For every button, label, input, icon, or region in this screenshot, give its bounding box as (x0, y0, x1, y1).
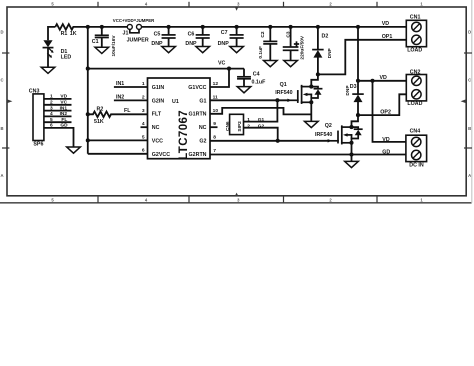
svg-text:G1: G1 (199, 98, 206, 104)
svg-text:C6: C6 (188, 32, 195, 38)
svg-text:C4: C4 (253, 71, 260, 77)
svg-text:FL: FL (61, 117, 67, 123)
svg-text:DNP: DNP (218, 41, 230, 47)
svg-text:C: C (468, 78, 471, 83)
svg-text:C3: C3 (285, 31, 291, 37)
svg-text:LTC7067: LTC7067 (178, 110, 190, 160)
svg-text:NC: NC (152, 125, 160, 131)
svg-text:Q1: Q1 (280, 82, 287, 88)
svg-text:G2: G2 (258, 123, 265, 129)
svg-text:1K: 1K (70, 31, 77, 37)
svg-text:G2IN: G2IN (152, 98, 165, 104)
svg-text:FL: FL (124, 108, 131, 114)
svg-text:C2: C2 (260, 31, 266, 37)
svg-text:SP6: SP6 (33, 141, 43, 147)
svg-text:0.1uF: 0.1uF (258, 46, 264, 59)
svg-text:DNP: DNP (327, 47, 333, 58)
svg-text:2: 2 (247, 123, 250, 129)
svg-text:JUMPER: JUMPER (127, 38, 149, 44)
svg-text:FLT: FLT (152, 112, 162, 118)
svg-text:LED: LED (61, 55, 72, 61)
svg-text:R2: R2 (97, 107, 104, 113)
svg-text:IN2: IN2 (116, 94, 124, 100)
svg-text:11: 11 (213, 94, 218, 100)
svg-text:G2: G2 (199, 139, 206, 145)
svg-text:VD: VD (382, 137, 390, 143)
svg-text:2: 2 (142, 94, 145, 100)
svg-text:6: 6 (50, 123, 53, 129)
svg-text:1: 1 (142, 81, 145, 87)
svg-text:B: B (0, 126, 3, 131)
svg-text:CN1: CN1 (410, 14, 421, 20)
svg-text:G1IN: G1IN (152, 85, 165, 91)
svg-text:LOAD: LOAD (407, 101, 422, 107)
svg-text:DNP: DNP (345, 85, 351, 96)
svg-text:G1: G1 (258, 117, 265, 123)
svg-text:VCC+VDD=JUMPER: VCC+VDD=JUMPER (113, 18, 155, 23)
svg-text:VC: VC (218, 61, 226, 67)
svg-text:0.1uF: 0.1uF (252, 79, 267, 85)
svg-text:OP2: OP2 (380, 109, 391, 115)
svg-text:220uF/50V: 220uF/50V (299, 35, 305, 60)
svg-text:G1RTN: G1RTN (189, 112, 207, 118)
svg-text:OP1: OP1 (382, 34, 393, 40)
svg-text:A: A (468, 173, 471, 178)
svg-text:IRF540: IRF540 (315, 132, 332, 138)
svg-text:IN1: IN1 (60, 105, 68, 111)
svg-text:51K: 51K (94, 119, 104, 125)
svg-text:8: 8 (213, 135, 216, 141)
svg-text:C5: C5 (154, 32, 161, 38)
svg-text:GD: GD (382, 149, 390, 155)
svg-text:VD: VD (60, 94, 67, 100)
svg-text:C1: C1 (92, 39, 99, 45)
svg-text:1: 1 (247, 117, 250, 123)
svg-text:VD: VD (380, 75, 388, 81)
svg-text:DC IN: DC IN (409, 163, 424, 169)
svg-text:2: 2 (50, 100, 53, 106)
svg-text:10uF/16V: 10uF/16V (111, 35, 117, 57)
svg-text:DNP: DNP (185, 41, 197, 47)
svg-text:VCC: VCC (152, 139, 163, 145)
svg-text:5: 5 (142, 134, 145, 140)
svg-text:CN6: CN6 (225, 121, 231, 131)
svg-text:7: 7 (213, 148, 216, 154)
svg-text:U1: U1 (172, 99, 179, 105)
svg-text:CN2: CN2 (410, 70, 421, 76)
svg-text:CN3: CN3 (29, 88, 40, 94)
svg-text:R1: R1 (61, 31, 68, 37)
svg-text:D3: D3 (350, 84, 357, 90)
svg-text:NC: NC (199, 125, 207, 131)
svg-text:G2VCC: G2VCC (152, 152, 170, 158)
svg-text:VC: VC (60, 100, 67, 106)
svg-text:3: 3 (50, 105, 53, 111)
svg-text:G2RTN: G2RTN (189, 152, 207, 158)
svg-text:LOAD: LOAD (407, 47, 422, 53)
svg-text:IN1: IN1 (116, 81, 124, 87)
svg-text:Q2: Q2 (325, 123, 332, 129)
svg-text:A: A (0, 173, 3, 178)
svg-text:5: 5 (50, 117, 53, 123)
svg-text:IN2: IN2 (60, 111, 68, 117)
svg-text:CN4: CN4 (410, 129, 421, 135)
svg-text:9: 9 (213, 121, 216, 127)
svg-text:1: 1 (50, 94, 53, 100)
svg-text:12: 12 (213, 81, 219, 87)
svg-text:C: C (0, 78, 3, 83)
svg-text:VD: VD (382, 21, 390, 27)
svg-text:4: 4 (50, 111, 53, 117)
svg-text:G1VCC: G1VCC (188, 85, 206, 91)
svg-text:D: D (0, 30, 3, 35)
svg-text:SIP2: SIP2 (237, 121, 243, 132)
svg-text:GD: GD (60, 123, 68, 129)
svg-text:10: 10 (213, 108, 219, 114)
svg-text:IRF540: IRF540 (275, 90, 292, 96)
svg-text:6: 6 (142, 148, 145, 154)
svg-text:D: D (468, 30, 471, 35)
svg-text:D2: D2 (322, 33, 329, 39)
svg-text:4: 4 (142, 121, 145, 127)
svg-text:3: 3 (142, 108, 145, 114)
svg-text:B: B (468, 126, 471, 131)
svg-text:J1: J1 (123, 30, 129, 36)
svg-text:C7: C7 (221, 30, 228, 36)
svg-text:DNP: DNP (151, 41, 163, 47)
